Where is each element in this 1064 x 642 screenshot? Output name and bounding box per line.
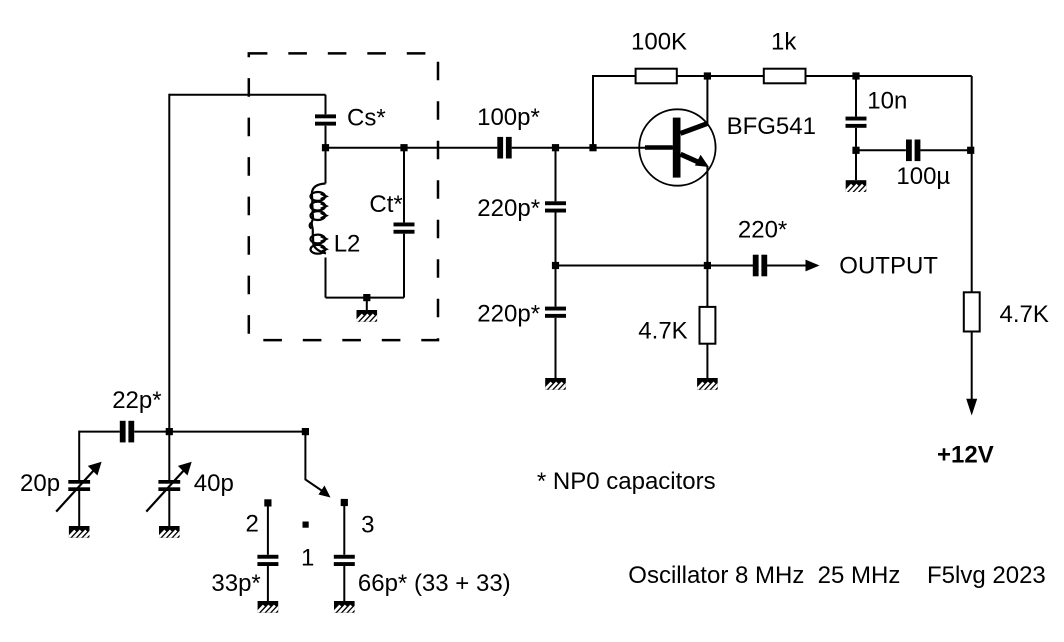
wire 66p top [343, 503, 345, 555]
wire bottom-left horizontal right [134, 431, 305, 433]
node tank left [322, 144, 329, 151]
svg-text:4.7K: 4.7K [1000, 301, 1049, 328]
wire bottom-left horizontal left [79, 431, 120, 433]
wire 33p top [267, 503, 269, 555]
svg-text:1k: 1k [771, 28, 797, 55]
capacitor 33p* [257, 555, 278, 566]
wire tank bottom [326, 297, 405, 299]
svg-text:100p*: 100p* [477, 104, 540, 131]
wire 40p bottom [168, 491, 170, 526]
svg-text:3: 3 [361, 511, 374, 538]
ground 10n [843, 180, 874, 194]
wire ground stub tank [366, 298, 368, 310]
capacitor 100p* [497, 137, 511, 159]
capacitor Ct* [394, 223, 415, 234]
node emitter output [704, 262, 711, 269]
svg-text:+12V: +12V [937, 442, 994, 469]
ground 20p [66, 526, 97, 540]
resistor 4.7K supply [964, 292, 980, 331]
transistor Q1 BFG541 [639, 109, 715, 185]
switch arrowhead [319, 486, 331, 498]
svg-text:100µ: 100µ [896, 163, 950, 190]
wire output arrow [766, 265, 806, 267]
wire 100u right [920, 149, 971, 151]
output arrowhead [806, 260, 820, 272]
capacitor 220p* lower [545, 307, 566, 318]
supply arrowhead [966, 399, 977, 416]
wire Cs top stub [325, 95, 327, 115]
node tank bottom [363, 294, 370, 301]
wire top rail [593, 75, 972, 77]
svg-text:220*: 220* [738, 217, 787, 244]
switch pole wire [305, 432, 324, 493]
svg-text:BFG541: BFG541 [727, 113, 816, 140]
wire L2 bottom [325, 258, 327, 298]
wire feedback vertical [592, 75, 594, 148]
resistor 100K [636, 69, 677, 84]
variable capacitor 20p [56, 462, 101, 512]
svg-text:2: 2 [246, 510, 259, 537]
wire Ct bottom [403, 234, 405, 298]
wire collector [706, 76, 708, 124]
svg-text:20p: 20p [20, 470, 60, 497]
resistor 1k [764, 69, 806, 84]
svg-text:220p*: 220p* [477, 195, 540, 222]
node switch junction [302, 428, 309, 435]
svg-text:OUTPUT: OUTPUT [839, 253, 938, 280]
wire emitter resistor to ground [706, 344, 708, 378]
switch terminal 2 [264, 499, 271, 506]
svg-text:66p* (33 + 33): 66p* (33 + 33) [358, 570, 511, 597]
node divider [552, 262, 559, 269]
wire Ct top [403, 148, 405, 223]
svg-text:* NP0 capacitors: * NP0 capacitors [537, 468, 716, 495]
node tank right [400, 144, 407, 151]
svg-text:Ct*: Ct* [369, 191, 402, 218]
svg-text:100K: 100K [631, 28, 687, 55]
wire 33p bottom [267, 566, 269, 601]
svg-text:40p: 40p [194, 470, 234, 497]
variable capacitor 40p [146, 462, 191, 512]
wire emitter down [706, 167, 708, 307]
svg-text:33p*: 33p* [211, 570, 260, 597]
wire Cs to node [325, 126, 327, 184]
wire supply arrow [971, 332, 973, 400]
wire 66p bottom [343, 566, 345, 601]
ground 33p [255, 601, 286, 615]
capacitor 220p* upper [545, 201, 566, 212]
capacitor 10n [846, 117, 867, 128]
wire output left [556, 265, 754, 267]
wire 20p bottom [78, 491, 80, 526]
node right rail [967, 147, 974, 154]
svg-text:1: 1 [301, 545, 314, 572]
resistor 4.7K emitter [700, 307, 716, 344]
switch terminal 3 [341, 499, 348, 506]
ground 40p [156, 526, 187, 540]
wire divider lower [555, 318, 557, 378]
capacitor 100u [906, 140, 920, 162]
svg-text:22p*: 22p* [112, 387, 161, 414]
svg-text:Cs*: Cs* [347, 105, 386, 132]
svg-text:220p*: 220p* [477, 300, 540, 327]
node bottom junction [166, 428, 173, 435]
ground emitter [694, 378, 725, 392]
ground divider [543, 378, 574, 392]
inductor L2 [310, 184, 327, 254]
node 10n 100u [852, 147, 859, 154]
wire base line right [512, 147, 673, 149]
capacitor 22p* [120, 421, 134, 443]
node rail collector [704, 72, 711, 79]
wire right rail [971, 76, 973, 292]
wire 10n top [855, 76, 857, 117]
wire 10n bottom [855, 128, 857, 180]
wire 40p top [168, 432, 170, 480]
ground tank [354, 310, 385, 324]
capacitor Cs* [315, 114, 336, 125]
svg-text:Oscillator 8 MHz 25 MHz F5: Oscillator 8 MHz 25 MHz F5lvg 2023 [628, 562, 1045, 589]
capacitor 220* [753, 255, 767, 277]
wire top-left horizontal [169, 94, 325, 96]
capacitor 66p* [334, 555, 355, 566]
svg-text:4.7K: 4.7K [638, 318, 687, 345]
node base junction [589, 144, 596, 151]
switch terminal 1 [303, 522, 309, 528]
svg-text:L2: L2 [334, 231, 361, 258]
dashed box around tank [249, 53, 438, 340]
wire divider vertical upper [555, 148, 557, 202]
node rail 10n [852, 72, 859, 79]
wire 100u left [856, 149, 906, 151]
wire 20p top [78, 431, 80, 480]
ground 66p [331, 601, 362, 615]
wire base line left [326, 147, 498, 149]
node 100p right [552, 144, 559, 151]
wire divider middle [555, 213, 557, 307]
wire left vertical long [168, 94, 170, 432]
svg-text:10n: 10n [867, 88, 907, 115]
